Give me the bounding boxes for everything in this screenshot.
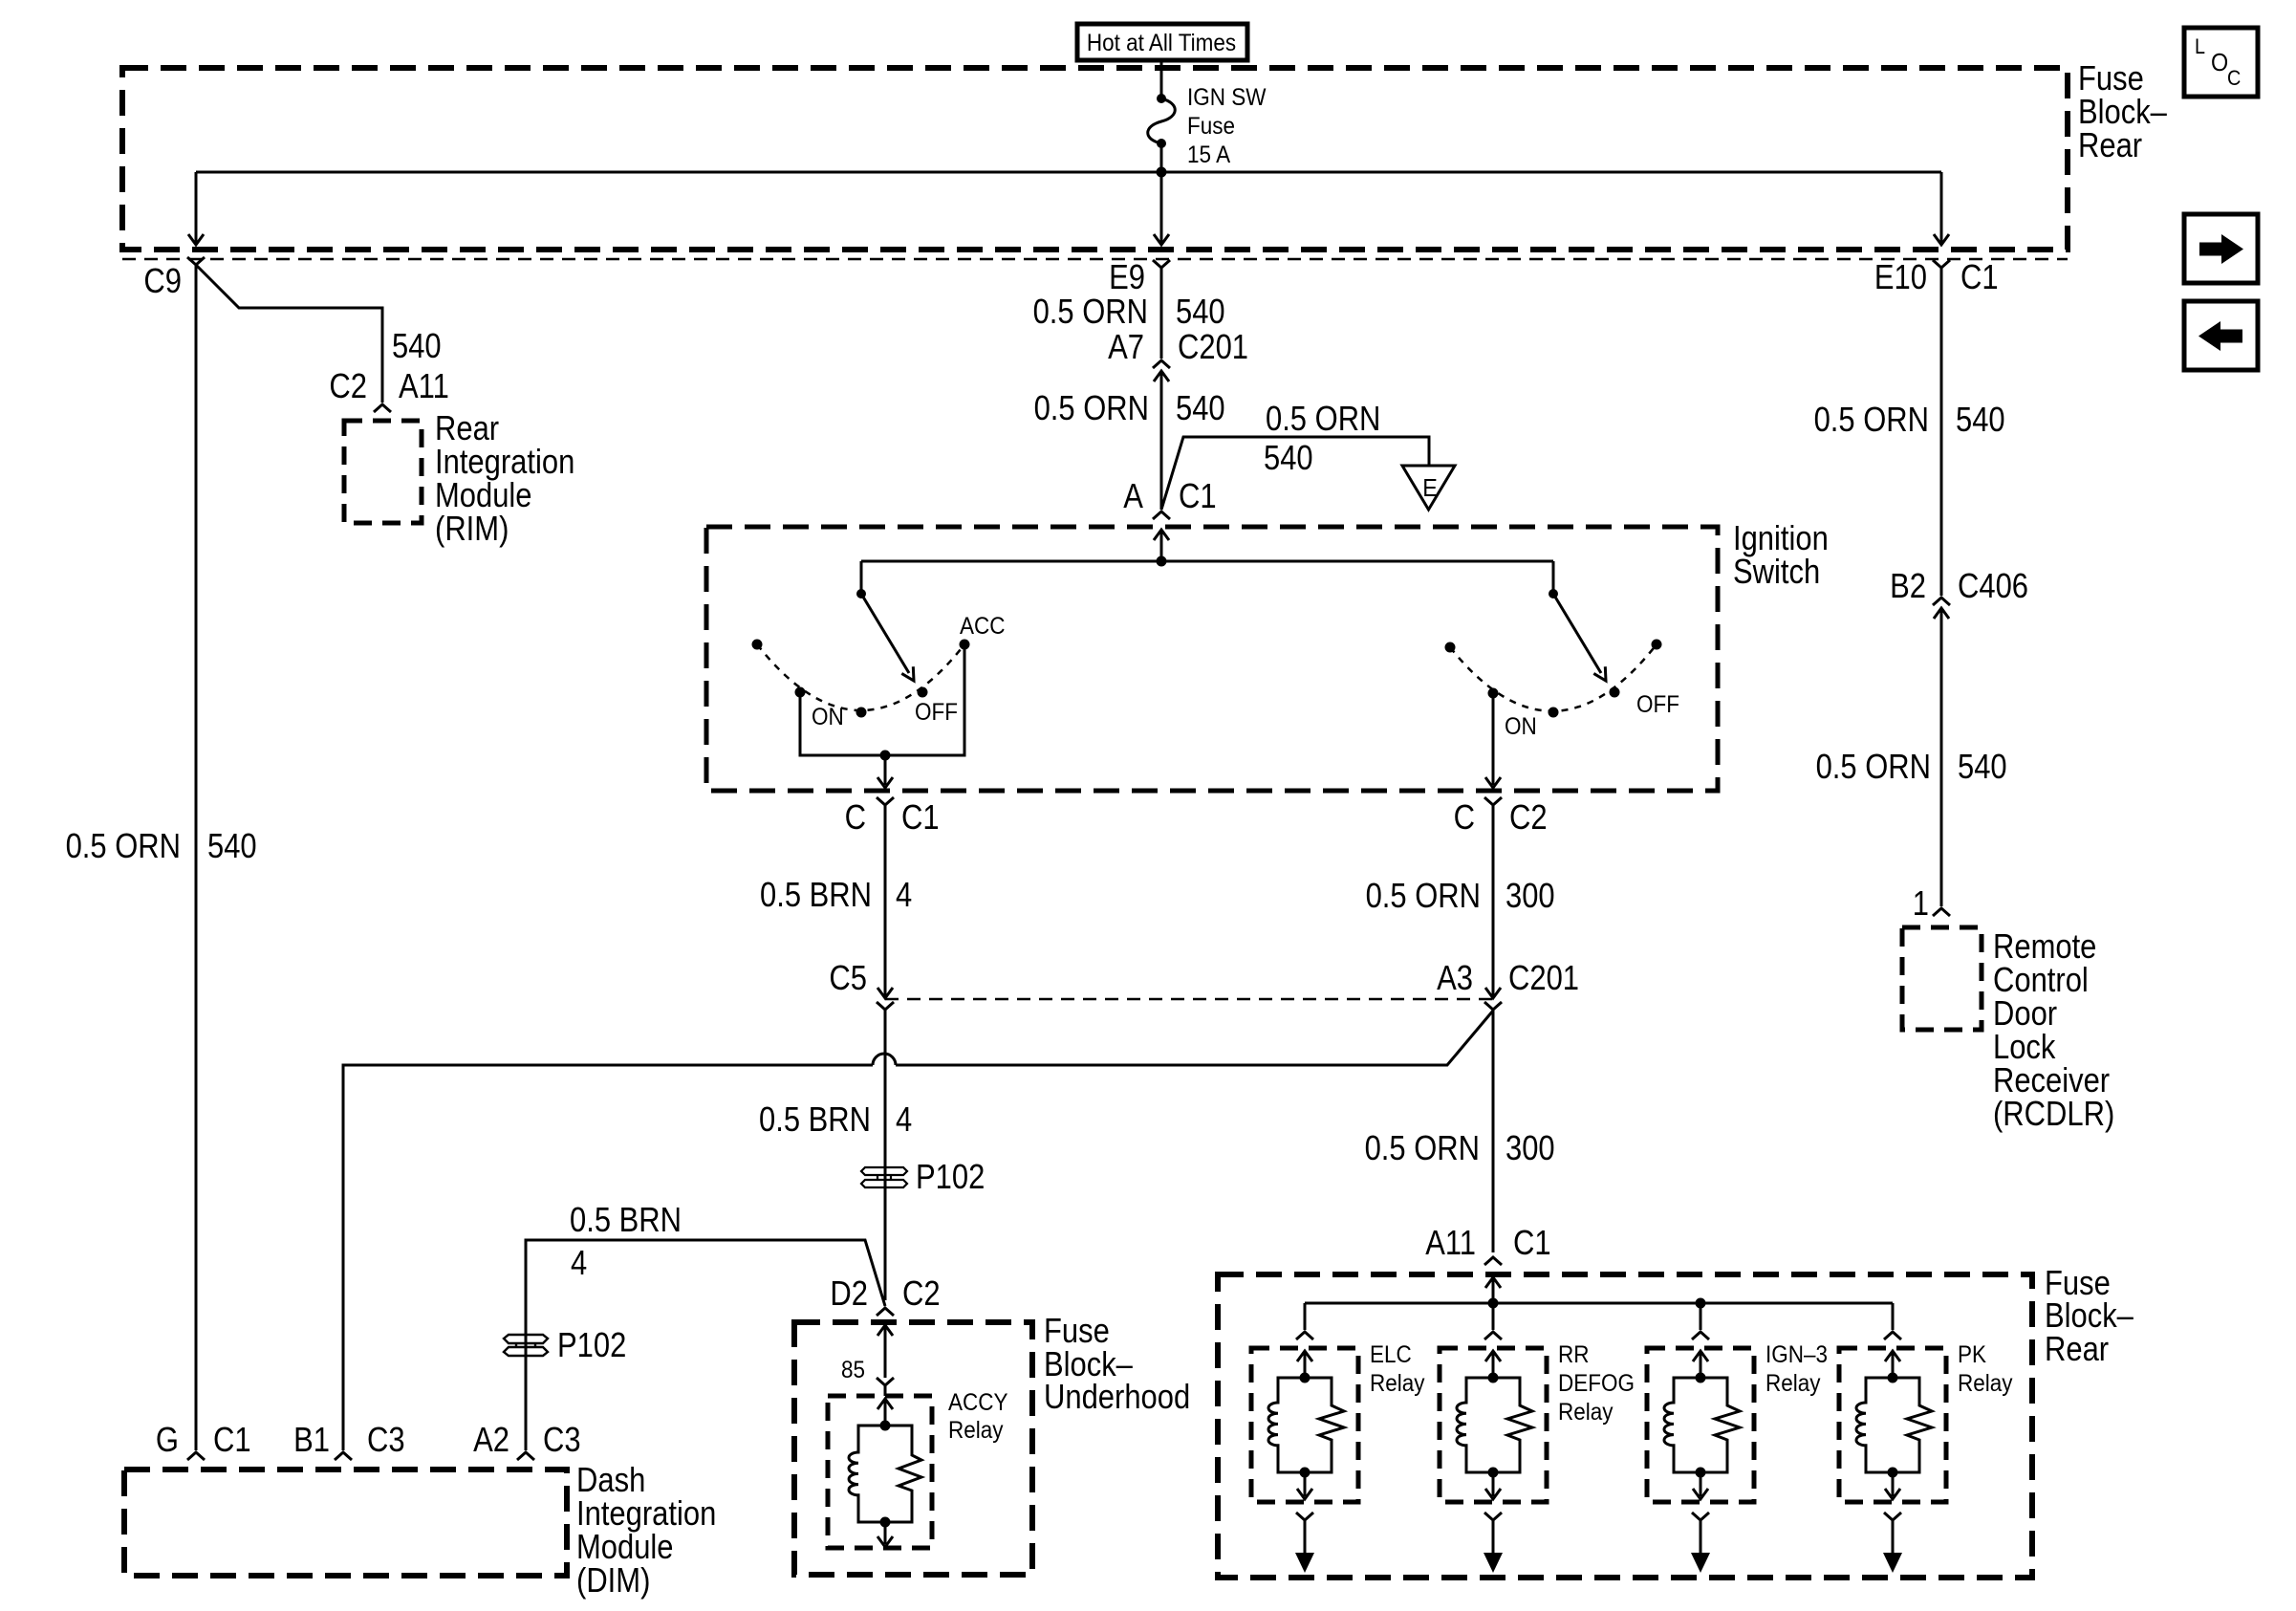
ignition switch internal bus [861, 556, 1553, 567]
svg-text:C: C [2227, 66, 2241, 90]
svg-text:ACC: ACC [960, 613, 1006, 640]
svg-text:ELC: ELC [1370, 1341, 1412, 1368]
svg-text:(RCDLR): (RCDLR) [1993, 1094, 2114, 1133]
label ON (right) [1505, 713, 1537, 740]
splice/ground symbol E (triangle) [1402, 466, 1455, 510]
label Fuse Block-Underhood [1044, 1311, 1190, 1416]
wire B2 to RCDLR (0.5 ORN 540) [1940, 608, 1943, 906]
label 0.5 BRN (branch) [570, 1200, 682, 1239]
wire E10 to B2 (0.5 ORN 540) [1940, 268, 1943, 596]
arrow into RR DEFOG relay [1485, 1351, 1501, 1378]
label connector A3 / C201 [1437, 958, 1579, 997]
svg-text:C3: C3 [543, 1420, 581, 1459]
wire E9 to C201 (0.5 ORN 540) [1160, 268, 1163, 359]
label OFF (right) [1636, 691, 1679, 718]
arrow into ELC relay [1297, 1351, 1312, 1378]
svg-text:C1: C1 [1513, 1223, 1551, 1262]
connector pins G/C1 B1/C3 A2/C3 into DIM [156, 1420, 581, 1460]
svg-text:C1: C1 [901, 797, 940, 837]
svg-text:IGN SW: IGN SW [1187, 84, 1267, 111]
arrow into ignition switch at pin A [1154, 530, 1169, 561]
svg-text:0.5 ORN: 0.5 ORN [66, 826, 181, 865]
RR DEFOG relay output pin [1484, 1513, 1503, 1573]
svg-text:ON: ON [812, 704, 844, 730]
svg-text:DEFOG: DEFOG [1558, 1370, 1635, 1397]
svg-text:IGN–3: IGN–3 [1765, 1341, 1828, 1368]
svg-text:Relay: Relay [948, 1417, 1004, 1444]
svg-text:A3: A3 [1437, 958, 1473, 997]
PK relay coil and resistor [1856, 1373, 1932, 1478]
label Rear Integration Module (RIM) [435, 408, 574, 548]
arrow into rear fuse block [1485, 1277, 1501, 1303]
svg-text:0.5 ORN: 0.5 ORN [1266, 399, 1380, 438]
PK relay output pin [1883, 1513, 1902, 1573]
svg-text:540: 540 [1958, 747, 2007, 786]
left switch arc (dashed) [757, 644, 964, 710]
label 0.5 ORN 540 (right upper) [1814, 400, 2005, 439]
connector pin below C5 [877, 1002, 894, 1010]
label connector C5 [829, 958, 867, 997]
svg-text:0.5 BRN: 0.5 BRN [759, 1099, 871, 1139]
svg-text:E10: E10 [1874, 257, 1927, 296]
svg-text:ACCY: ACCY [948, 1389, 1008, 1416]
PK Relay dashed box [1839, 1348, 1946, 1502]
svg-text:540: 540 [392, 326, 442, 365]
svg-text:O: O [2211, 48, 2228, 76]
RR DEFOG Relay dashed box [1440, 1348, 1547, 1502]
connector pin E10 / C1 [1874, 257, 1999, 296]
power feed label box: Hot at All Times [1077, 24, 1247, 60]
svg-text:(DIM): (DIM) [576, 1560, 650, 1600]
svg-text:540: 540 [1176, 388, 1225, 427]
svg-text:15 A: 15 A [1187, 142, 1230, 168]
IGN-3 relay output pin [1691, 1513, 1710, 1573]
connector pin C9 [143, 257, 205, 300]
svg-text:(RIM): (RIM) [435, 509, 509, 548]
svg-text:300: 300 [1505, 1128, 1555, 1167]
LOC reference box [2184, 28, 2258, 97]
svg-text:Relay: Relay [1765, 1370, 1821, 1397]
svg-text:C: C [1454, 797, 1475, 837]
svg-text:B2: B2 [1890, 566, 1926, 605]
svg-text:Relay: Relay [1370, 1370, 1425, 1397]
svg-text:85: 85 [841, 1357, 865, 1383]
label ON (left) [812, 704, 844, 730]
svg-text:0.5 ORN: 0.5 ORN [1033, 292, 1148, 331]
right rotor feed riser [1552, 561, 1555, 594]
wire from Hot at All Times into fuse block [1160, 60, 1163, 99]
label 0.5 ORN 300 (lower) [1365, 1128, 1555, 1167]
svg-text:Relay: Relay [1958, 1370, 2013, 1397]
IGN-3 relay coil and resistor [1664, 1373, 1740, 1478]
grommet P102 (center) [861, 1167, 907, 1187]
ACCY relay coil and resistor [849, 1421, 921, 1528]
svg-text:E: E [1422, 473, 1438, 502]
svg-text:0.5 ORN: 0.5 ORN [1365, 1128, 1480, 1167]
svg-text:C2: C2 [1509, 797, 1548, 837]
arrow into IGN-3 relay [1693, 1351, 1708, 1378]
svg-text:ON: ON [1505, 713, 1537, 740]
wire bus drop to PK relay [1884, 1303, 1901, 1339]
connector pin A / C1 into ignition switch [1123, 476, 1216, 519]
Dash Integration Module (DIM) dashed box [124, 1469, 567, 1576]
wire A3 to A11 (0.5 ORN 300) [1492, 1010, 1495, 1252]
svg-text:C2: C2 [329, 366, 367, 405]
svg-text:Underhood: Underhood [1044, 1377, 1190, 1416]
label Remote Control Door Lock Receiver (RCDLR) [1993, 926, 2114, 1133]
svg-text:E9: E9 [1109, 257, 1145, 296]
right rotor pivot dot [1549, 589, 1558, 599]
label 0.5 BRN 4 (lower) [759, 1099, 912, 1139]
svg-text:RR: RR [1558, 1341, 1590, 1368]
svg-text:L: L [2195, 34, 2205, 58]
arrow out of PK relay [1885, 1472, 1900, 1499]
svg-text:A7: A7 [1108, 327, 1144, 366]
branch wire to DIM pin A2 (0.5 BRN 4) [526, 1240, 885, 1450]
bus wire inside fuse block (horizontal) [196, 167, 1941, 178]
grommet P102 (left) [504, 1335, 548, 1356]
arrow out of ACCY relay [877, 1522, 893, 1547]
wire C5 to P102 (0.5 BRN 4) with hop [884, 1010, 887, 1300]
connector pin C / C1 below ignition switch [845, 797, 940, 837]
svg-text:4: 4 [896, 1099, 912, 1139]
Rear Integration Module (RIM) dashed box [344, 421, 422, 523]
label PK Relay [1958, 1341, 2013, 1397]
label IGN SW Fuse 15 A [1187, 84, 1267, 168]
svg-text:A2: A2 [473, 1420, 509, 1459]
label ACC [960, 613, 1006, 640]
svg-text:PK: PK [1958, 1341, 1986, 1368]
svg-text:C406: C406 [1958, 566, 2028, 605]
fuse IGN SW 15A (element) [1148, 94, 1176, 170]
svg-text:C: C [845, 797, 866, 837]
connector pin C / C2 below ignition switch [1454, 797, 1548, 837]
wire bus drop to ELC relay [1296, 1303, 1313, 1339]
connector pin D2 / C2 into underhood fuse block [830, 1274, 940, 1316]
label P102 (left) [557, 1325, 626, 1364]
svg-text:A11: A11 [399, 366, 449, 405]
svg-text:Rear: Rear [2078, 125, 2142, 164]
back-reference arrow box (left arrow) [2184, 301, 2258, 370]
ELC relay coil and resistor [1268, 1373, 1344, 1478]
label 540 (jumper) [1264, 438, 1313, 477]
label Ignition Switch [1733, 518, 1829, 591]
Remote Control Door Lock Receiver dashed box [1902, 927, 1982, 1030]
svg-text:0.5 ORN: 0.5 ORN [1034, 388, 1149, 427]
svg-text:1: 1 [1913, 883, 1929, 923]
svg-text:Fuse: Fuse [1187, 113, 1235, 140]
left rotor arm (arrow to OFF) [861, 594, 920, 685]
svg-text:C1: C1 [213, 1420, 251, 1459]
svg-text:Switch: Switch [1733, 552, 1820, 591]
svg-text:0.5 BRN: 0.5 BRN [760, 875, 872, 914]
svg-text:300: 300 [1505, 876, 1555, 915]
arrow out of IGN-3 relay [1693, 1472, 1708, 1499]
svg-text:P102: P102 [916, 1157, 985, 1196]
label ELC Relay [1370, 1341, 1425, 1397]
wire C9 branch diagonal to RIM [196, 265, 382, 403]
label RR DEFOG Relay [1558, 1341, 1635, 1426]
svg-text:0.5 BRN: 0.5 BRN [570, 1200, 682, 1239]
wire drop to C9 with arrow [188, 172, 204, 245]
Ignition Switch dashed box [706, 527, 1718, 791]
right arc contact dots [1445, 640, 1662, 718]
ACCY Relay dashed box [828, 1396, 932, 1548]
svg-text:540: 540 [1176, 292, 1225, 331]
Fuse Block-Rear (bottom) dashed box [1218, 1274, 2032, 1578]
svg-text:C201: C201 [1178, 327, 1248, 366]
label 540 (RIM branch) [392, 326, 442, 365]
left arc contact dots [752, 640, 970, 718]
right switch arc (dashed) [1450, 644, 1657, 711]
connector C201 face (thin dashed line) [885, 998, 1492, 1001]
left rotor feed riser [860, 561, 863, 594]
IGN-3 Relay dashed box [1647, 1348, 1754, 1502]
label P102 (center) [916, 1157, 985, 1196]
wire C to C5 (0.5 BRN 4) [877, 805, 893, 998]
svg-text:4: 4 [896, 875, 912, 914]
label 0.5 BRN 4 (upper) [760, 875, 912, 914]
ELC Relay dashed box [1251, 1348, 1358, 1502]
forward-reference arrow box (right arrow) [2184, 214, 2258, 283]
wire C201 to ignition switch pin A (0.5 ORN 540) [1160, 371, 1163, 510]
label 0.5 ORN 540 (below C201) [1034, 388, 1225, 427]
svg-text:A11: A11 [1425, 1223, 1476, 1262]
svg-text:0.5 ORN: 0.5 ORN [1814, 400, 1929, 439]
connector pin A11 / C1 into rear fuse block [1425, 1223, 1550, 1265]
relay pin 85 [841, 1357, 894, 1396]
fuse block connector face (thin dashed line) [122, 258, 2068, 261]
svg-text:4: 4 [571, 1243, 587, 1282]
wire drop to E10 with arrow [1934, 172, 1949, 245]
svg-text:C1: C1 [1960, 257, 1999, 296]
arrow into underhood fuse block [877, 1325, 893, 1378]
arrow out of RR DEFOG relay [1485, 1472, 1501, 1499]
left switch wire to pin C with arrow [877, 755, 893, 788]
svg-text:C201: C201 [1508, 958, 1579, 997]
svg-text:C3: C3 [367, 1420, 405, 1459]
svg-text:Rear: Rear [2045, 1329, 2109, 1368]
branch wire A3 to DIM pin B1 with hop over BRN wire [343, 1011, 1493, 1450]
svg-text:P102: P102 [557, 1325, 626, 1364]
label Fuse Block-Rear (bottom) [2045, 1263, 2134, 1368]
svg-text:540: 540 [1264, 438, 1313, 477]
wire C9 down to DIM pin G (0.5 ORN 540) [195, 265, 198, 1450]
label Fuse Block-Rear (top right) [2078, 58, 2167, 164]
ELC relay output pin [1295, 1513, 1314, 1573]
arrow into ACCY relay [877, 1399, 893, 1426]
label 0.5 ORN 540 (right lower) [1816, 747, 2007, 786]
svg-text:Relay: Relay [1558, 1399, 1614, 1426]
rear fuse block relay bus [1305, 1298, 1893, 1309]
inline connector C201 pin A7 (double chevron) [1108, 327, 1248, 381]
svg-text:0.5 ORN: 0.5 ORN [1366, 876, 1481, 915]
wire bus drop to IGN-3 relay [1692, 1303, 1709, 1339]
connector pin 1 into RCDLR [1913, 883, 1950, 923]
label 0.5 ORN 300 (upper) [1366, 876, 1555, 915]
label ACCY Relay [948, 1389, 1008, 1444]
right switch wire to pin C with arrow [1485, 693, 1501, 788]
label 4 (branch) [571, 1243, 587, 1282]
label IGN-3 Relay [1765, 1341, 1828, 1397]
arrow into PK relay [1885, 1351, 1900, 1378]
right rotor arm (arrow to OFF) [1553, 594, 1612, 685]
connector caret into RIM [374, 404, 391, 412]
left rotor pivot dot [856, 589, 866, 599]
svg-text:C9: C9 [143, 261, 182, 300]
svg-text:C1: C1 [1179, 476, 1217, 515]
left switch output wires [800, 644, 964, 761]
connector pin below A3 [1484, 1002, 1502, 1010]
jumper wire to ground splice E (0.5 ORN 540) [1161, 437, 1429, 510]
connector pin E9 [1109, 257, 1170, 296]
arrow out of ELC relay [1297, 1472, 1312, 1499]
label 0.5 ORN (jumper) [1266, 399, 1380, 438]
inline connector C406 pin B2 (double chevron) [1890, 566, 2028, 619]
svg-text:G: G [156, 1420, 179, 1459]
svg-text:C2: C2 [902, 1274, 941, 1313]
svg-text:C5: C5 [829, 958, 867, 997]
wire C to A3 (0.5 ORN 300) [1485, 805, 1501, 998]
svg-text:OFF: OFF [915, 699, 958, 726]
svg-text:0.5 ORN: 0.5 ORN [1816, 747, 1931, 786]
svg-text:540: 540 [207, 826, 257, 865]
svg-text:A: A [1123, 476, 1143, 515]
label 0.5 ORN 540 (left wire) [66, 826, 257, 865]
fuse block rear (top) dashed box [122, 68, 2068, 250]
connector pin C2 / A11 labels [329, 366, 448, 405]
label Dash Integration Module (DIM) [576, 1460, 716, 1600]
label 0.5 ORN 540 (above C201) [1033, 292, 1225, 331]
svg-text:B1: B1 [293, 1420, 330, 1459]
Fuse Block-Underhood dashed box [794, 1322, 1032, 1575]
wire drop to E9 with arrow [1154, 174, 1169, 245]
svg-text:Hot at All Times: Hot at All Times [1087, 30, 1236, 56]
svg-text:D2: D2 [830, 1274, 868, 1313]
wire bus drop to RR DEFOG relay [1484, 1303, 1502, 1339]
label OFF (left) [915, 699, 958, 726]
svg-text:OFF: OFF [1636, 691, 1679, 718]
RR DEFOG relay coil and resistor [1457, 1373, 1532, 1478]
svg-text:540: 540 [1956, 400, 2005, 439]
